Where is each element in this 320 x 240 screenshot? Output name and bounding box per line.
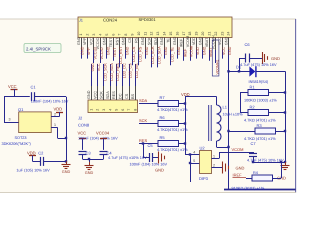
resistor R3	[227, 130, 229, 132]
svg-text:VCC: VCC	[90, 37, 94, 45]
svg-text:4: 4	[193, 150, 195, 154]
svg-text:R4: R4	[253, 171, 258, 175]
capacitor C2	[40, 157, 42, 166]
svg-text:5: 5	[105, 34, 109, 36]
svg-text:2.4I_SPI9CK: 2.4I_SPI9CK	[26, 46, 51, 51]
wire R7 to VDD rail	[179, 103, 186, 105]
wire VDD vertical rail	[185, 97, 187, 155]
wire left vertical	[4, 97, 6, 122]
svg-text:SDA: SDA	[154, 37, 158, 45]
wire SCK row	[139, 123, 158, 125]
svg-text:GND: GND	[160, 36, 164, 45]
svg-text:CON8: CON8	[78, 123, 90, 128]
svg-text:VCOM: VCOM	[190, 46, 194, 57]
wire SDA row	[139, 103, 158, 105]
op-amp U2	[200, 151, 212, 174]
svg-text:10: 10	[137, 32, 141, 36]
ground	[285, 162, 287, 165]
wire Q1 pin1	[51, 127, 57, 129]
svg-text:100nF (104) 10% 16V: 100nF (104) 10% 16V	[130, 163, 168, 167]
svg-text:DIP3: DIP3	[199, 176, 209, 181]
svg-text:VCC: VCC	[97, 63, 101, 71]
svg-text:L1: L1	[223, 105, 228, 110]
svg-text:C4: C4	[107, 151, 113, 156]
svg-text:7: 7	[127, 109, 131, 111]
resistor R4	[252, 175, 273, 181]
svg-text:GND: GND	[173, 36, 177, 45]
svg-text:GND: GND	[271, 56, 280, 61]
svg-text:4: 4	[108, 109, 112, 111]
resistor R5	[158, 141, 179, 147]
wire right rail	[285, 71, 287, 162]
svg-text:LCD_RES: LCD_RES	[116, 63, 120, 81]
connector J2 CON8	[88, 100, 138, 113]
svg-text:GND: GND	[141, 36, 145, 45]
svg-text:DC: DC	[119, 93, 123, 99]
svg-text:TEST: TEST	[109, 37, 113, 47]
power VDD	[56, 112, 63, 114]
svg-text:U2: U2	[200, 146, 206, 151]
svg-text:910KΩ (9103) ±1%: 910KΩ (9103) ±1%	[232, 186, 265, 190]
wire U2 pin5	[190, 163, 200, 165]
svg-text:D1: D1	[236, 65, 242, 70]
svg-text:VCC: VCC	[8, 84, 17, 89]
ground	[262, 52, 264, 64]
wire C5 to GND	[152, 157, 158, 159]
svg-text:2: 2	[86, 34, 90, 36]
svg-text:SOT23: SOT23	[15, 136, 27, 140]
wire D1 cathode	[256, 71, 285, 73]
wire bottom rail	[224, 189, 296, 191]
svg-text:LCD_SCK: LCD_SCK	[151, 46, 155, 64]
svg-text:4.7KΩ(4701) ±1%: 4.7KΩ(4701) ±1%	[157, 108, 188, 112]
svg-text:BS: BS	[131, 93, 135, 99]
svg-text:2: 2	[96, 109, 100, 111]
svg-text:SCK: SCK	[147, 37, 151, 45]
svg-text:RST: RST	[115, 37, 119, 45]
svg-text:C1: C1	[31, 84, 37, 89]
ground	[158, 152, 160, 164]
svg-text:4: 4	[98, 34, 102, 36]
svg-text:IN5819(S4): IN5819(S4)	[249, 80, 269, 84]
wire Q1 pin2	[51, 116, 59, 118]
wire VDD to C2	[33, 161, 41, 163]
svg-text:GND: GND	[62, 170, 71, 174]
svg-text:VDD: VDD	[192, 37, 196, 45]
svg-text:21: 21	[208, 32, 212, 36]
svg-text:16: 16	[175, 32, 179, 36]
svg-text:LCD_RST: LCD_RST	[119, 46, 123, 64]
svg-text:1: 1	[213, 154, 215, 158]
svg-text:VDD: VDD	[196, 47, 200, 55]
resistor R1	[240, 92, 248, 94]
wire R6 to VDD rail	[179, 123, 186, 125]
wire C2 to GND	[44, 161, 66, 163]
wire VDD rail to U2 pin4	[185, 154, 200, 156]
svg-text:VCC: VCC	[93, 91, 97, 99]
svg-text:LCD_SCK: LCD_SCK	[104, 63, 108, 81]
svg-text:GND: GND	[236, 165, 245, 170]
svg-text:IREF: IREF	[179, 38, 183, 47]
svg-text:LCD_DC: LCD_DC	[122, 63, 126, 78]
svg-text:2: 2	[213, 163, 215, 167]
svg-text:LCD_SDA: LCD_SDA	[158, 46, 162, 64]
resistor R2	[240, 112, 248, 114]
svg-text:VDD: VDD	[54, 107, 63, 112]
wire U2 pin2 to GND	[212, 167, 223, 169]
svg-text:1uF (105) 10% 16V: 1uF (105) 10% 16V	[16, 168, 50, 172]
svg-text:100nF (104) ±10% 16V: 100nF (104) ±10% 16V	[78, 136, 118, 140]
svg-text:13: 13	[156, 32, 160, 36]
svg-text:TE: TE	[167, 38, 171, 43]
svg-text:22: 22	[214, 32, 218, 36]
svg-text:8: 8	[124, 34, 128, 36]
wire VCC stub	[14, 89, 16, 97]
capacitor C5	[149, 153, 151, 162]
resistor R1	[248, 90, 269, 96]
svg-text:LCD_CS: LCD_CS	[129, 63, 133, 78]
capacitor C6 branch	[239, 58, 241, 71]
svg-text:23: 23	[220, 32, 224, 36]
svg-text:4.7KΩ (4701) ±1%: 4.7KΩ (4701) ±1%	[244, 137, 276, 141]
svg-text:18: 18	[188, 32, 192, 36]
svg-text:15: 15	[169, 32, 173, 36]
svg-text:GND: GND	[155, 168, 164, 173]
svg-text:GND: GND	[91, 63, 95, 72]
svg-text:10uH ±10%: 10uH ±10%	[223, 113, 244, 117]
svg-text:LCD_BS: LCD_BS	[135, 63, 139, 78]
wire VDD to L1	[185, 96, 217, 98]
svg-text:LCD_TE: LCD_TE	[171, 47, 175, 62]
svg-text:3DK6206("M2K"): 3DK6206("M2K")	[2, 142, 32, 146]
svg-text:CON24: CON24	[103, 17, 118, 22]
svg-text:R1: R1	[250, 84, 256, 89]
svg-text:CS: CS	[125, 93, 129, 99]
svg-text:GND: GND	[126, 46, 130, 55]
svg-text:GND: GND	[85, 171, 94, 175]
connector J1 CON24 SPD0301	[78, 17, 232, 38]
svg-text:GND: GND	[81, 46, 85, 55]
wire C3 C4 common	[83, 159, 104, 161]
svg-text:VBAT: VBAT	[205, 37, 209, 47]
svg-text:1: 1	[89, 109, 93, 111]
svg-text:GND: GND	[77, 36, 81, 45]
svg-text:R7: R7	[160, 95, 166, 100]
wire VCC rail	[4, 96, 30, 98]
schematic sheet	[0, 19, 296, 193]
svg-text:SCK: SCK	[139, 118, 148, 123]
svg-text:17: 17	[182, 32, 186, 36]
svg-text:IREF: IREF	[233, 172, 243, 177]
resistor R2	[248, 110, 269, 116]
wire C3 to gnd wire	[82, 154, 84, 159]
wire U2 pin1 to VCOM	[212, 158, 220, 160]
resistor R6	[158, 121, 179, 127]
svg-text:SPD0301: SPD0301	[139, 17, 157, 22]
svg-text:4.7uF (475) 10% 16V: 4.7uF (475) 10% 16V	[240, 63, 277, 67]
svg-text:VCC04: VCC04	[96, 131, 110, 136]
svg-text:R2: R2	[250, 104, 256, 109]
svg-text:C6: C6	[245, 42, 251, 47]
svg-text:SCK: SCK	[100, 91, 104, 99]
note 2.4 inch SPI screen	[24, 44, 61, 53]
svg-text:GND: GND	[164, 46, 168, 55]
svg-text:14: 14	[163, 32, 167, 36]
svg-text:1: 1	[79, 34, 83, 36]
wire C1 to GND rail	[34, 96, 66, 98]
capacitor C3	[79, 151, 87, 153]
svg-text:6: 6	[111, 34, 115, 36]
inductor L1 10uH	[216, 97, 218, 106]
svg-text:GND: GND	[122, 36, 126, 45]
svg-text:SDA: SDA	[139, 98, 148, 103]
svg-text:1: 1	[54, 123, 56, 127]
ground	[89, 162, 91, 165]
svg-text:19: 19	[195, 32, 199, 36]
svg-text:VCOM: VCOM	[232, 147, 244, 152]
svg-text:C2: C2	[38, 151, 44, 156]
power VCC	[11, 89, 18, 91]
svg-text:20: 20	[201, 32, 205, 36]
svg-text:3: 3	[9, 118, 11, 122]
wire Q1 pin3	[4, 122, 19, 124]
wire U2 left vertical	[190, 155, 192, 183]
wire L1 bottom	[216, 141, 218, 147]
capacitor C6	[245, 54, 247, 63]
svg-text:GND: GND	[103, 36, 107, 45]
svg-text:RES: RES	[139, 138, 148, 143]
svg-text:C3: C3	[86, 151, 92, 156]
capacitor C1	[31, 92, 33, 101]
resistor R7	[158, 101, 179, 107]
svg-text:R6: R6	[160, 115, 166, 120]
svg-text:VCOM: VCOM	[186, 36, 190, 47]
svg-text:4.7KΩ(4701) ±1%: 4.7KΩ(4701) ±1%	[157, 148, 188, 152]
resistor R3	[255, 128, 276, 134]
svg-text:8: 8	[134, 109, 138, 111]
svg-text:GND: GND	[87, 90, 91, 99]
svg-text:VCC: VCC	[222, 47, 226, 55]
svg-text:VPP: VPP	[87, 47, 91, 55]
svg-text:4.7uF (475) ±10% 16V: 4.7uF (475) ±10% 16V	[108, 156, 147, 160]
svg-text:TEST: TEST	[113, 47, 117, 57]
wire GND rail vertical	[66, 97, 68, 162]
svg-text:VCC: VCC	[78, 131, 87, 136]
svg-text:LCD_RS: LCD_RS	[138, 46, 142, 61]
svg-text:IREF: IREF	[183, 48, 187, 57]
svg-text:11: 11	[143, 32, 147, 36]
svg-text:100nF (104) 10% 16V: 100nF (104) 10% 16V	[31, 99, 69, 103]
svg-text:R3: R3	[257, 123, 263, 128]
wire R5 to VDD rail	[179, 143, 186, 145]
svg-text:5: 5	[193, 159, 195, 163]
svg-text:GND: GND	[145, 46, 149, 55]
svg-text:RS: RS	[135, 37, 139, 43]
power VCC	[79, 138, 86, 140]
svg-text:VPP: VPP	[83, 37, 87, 45]
svg-text:VCC: VCC	[218, 37, 222, 45]
svg-text:9: 9	[131, 34, 135, 36]
svg-text:100KΩ (1003) ±1%: 100KΩ (1003) ±1%	[244, 99, 277, 103]
wire C4 to gnd wire	[103, 154, 105, 159]
svg-text:7: 7	[118, 34, 122, 36]
svg-text:LCD_CS: LCD_CS	[132, 46, 136, 61]
transistor Q1	[19, 112, 52, 133]
svg-text:VDD: VDD	[27, 150, 36, 155]
svg-text:6: 6	[121, 109, 125, 111]
svg-text:RES: RES	[112, 91, 116, 99]
wire RES row	[139, 143, 158, 145]
wire R1 R2 left join	[240, 93, 242, 113]
svg-text:12: 12	[150, 32, 154, 36]
svg-text:SDA: SDA	[106, 91, 110, 99]
svg-text:R5: R5	[160, 135, 166, 140]
svg-text:GND: GND	[224, 36, 228, 45]
ground	[66, 161, 68, 164]
wire VCC to C3	[82, 139, 84, 150]
svg-text:Q1: Q1	[18, 107, 24, 112]
svg-text:5: 5	[115, 109, 119, 111]
wire RES to C5	[142, 142, 144, 144]
svg-text:GND: GND	[199, 36, 203, 45]
svg-text:GND: GND	[228, 46, 232, 55]
diode D1 IN5819	[227, 70, 229, 72]
svg-text:2: 2	[54, 113, 56, 117]
net label VCOMH (boxed)	[212, 40, 219, 76]
svg-text:3: 3	[102, 109, 106, 111]
wire C7 to gnd rail	[253, 162, 285, 164]
svg-text:4.7KΩ(4701) ±1%: 4.7KΩ(4701) ±1%	[157, 128, 188, 132]
power VCC04	[100, 138, 107, 140]
wire VCC04 to C4	[103, 139, 105, 150]
svg-text:VCOMH1: VCOMH1	[215, 59, 219, 74]
svg-text:3: 3	[92, 34, 96, 36]
svg-text:C7: C7	[251, 141, 257, 146]
ground	[222, 162, 224, 174]
svg-text:VCCIO: VCCIO	[100, 47, 104, 59]
resistor R4	[246, 178, 252, 180]
svg-text:CS: CS	[128, 37, 132, 43]
power VDD	[29, 155, 36, 157]
svg-text:C5: C5	[148, 143, 154, 148]
svg-text:24: 24	[227, 32, 231, 36]
capacitor C4	[100, 151, 108, 153]
svg-text:LCD_SDA: LCD_SDA	[110, 63, 114, 81]
